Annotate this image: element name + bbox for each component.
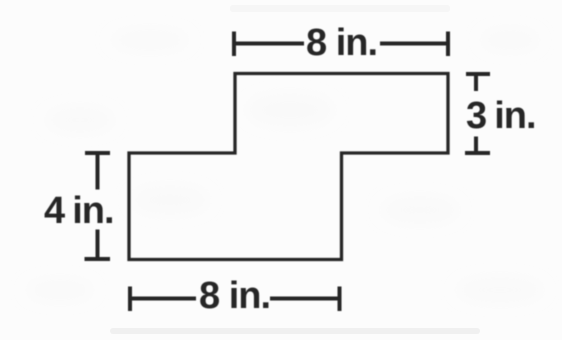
svg-text:8 in.: 8 in.: [306, 22, 377, 64]
svg-text:3 in.: 3 in.: [466, 95, 536, 137]
svg-text:8 in.: 8 in.: [199, 275, 270, 317]
svg-text:4 in.: 4 in.: [44, 190, 114, 232]
